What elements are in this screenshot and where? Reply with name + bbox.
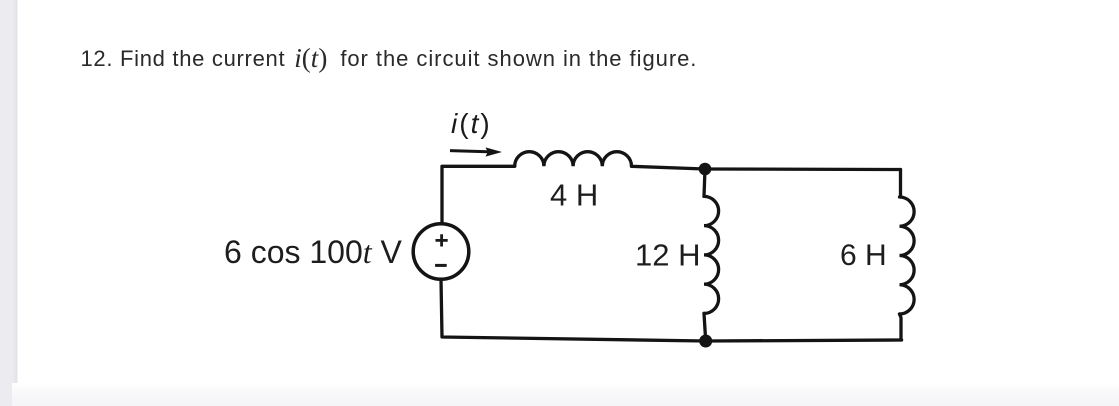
wire: right branch top lead <box>899 170 902 198</box>
label 4 H <box>550 178 598 213</box>
current label i(t) <box>451 108 492 139</box>
page left gray strip <box>0 0 18 406</box>
wire: left bottom segment from source to bottom rail <box>441 279 706 341</box>
wire: top segment from 4H to node A <box>632 166 706 169</box>
inductor L3 6 H (vertical coil) <box>900 197 915 314</box>
node A (top junction dot) <box>699 163 712 176</box>
problem title text <box>81 43 698 73</box>
label 6 H <box>840 239 887 272</box>
node B (bottom junction dot) <box>699 335 712 348</box>
voltage source plus sign <box>436 234 448 246</box>
svg-text:4 H: 4 H <box>550 178 598 213</box>
inductor L1 4 H (horizontal coil) <box>515 152 632 167</box>
wire: top left segment from source to 4H <box>442 166 515 224</box>
svg-text:12. Find the currenti(t)for th: 12. Find the currenti(t)for the circuit … <box>81 43 698 73</box>
label 12 H <box>635 238 700 273</box>
wire: right branch bottom lead <box>900 314 902 340</box>
svg-text:6 cos 100t V: 6 cos 100t V <box>224 234 403 270</box>
svg-text:i(t): i(t) <box>451 108 492 139</box>
wire: middle branch bottom lead <box>704 313 706 341</box>
page bottom light band <box>12 383 1119 406</box>
wire: bottom segment node B to right branch <box>706 340 902 341</box>
voltage source VS circle <box>413 224 469 280</box>
current direction arrow <box>450 147 502 156</box>
svg-text:12 H: 12 H <box>635 238 700 273</box>
voltage source minus sign <box>435 264 447 267</box>
wire: top segment from node A to right branch <box>705 167 901 171</box>
inductor L2 12 H (vertical coil) <box>704 196 719 313</box>
source value label 6 cos 100t V <box>224 234 403 270</box>
wire: middle branch top lead <box>704 169 705 196</box>
svg-text:6 H: 6 H <box>840 239 887 272</box>
